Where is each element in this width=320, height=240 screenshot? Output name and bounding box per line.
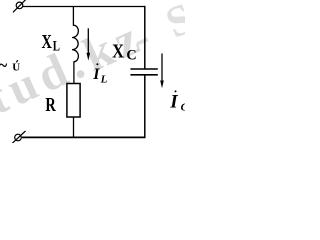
svg-text:I: I [169, 92, 178, 113]
current arrow IL [87, 28, 91, 60]
svg-text:C: C [181, 101, 185, 113]
label IL [92, 63, 107, 85]
label IC [169, 90, 188, 113]
svg-text:I: I [92, 66, 100, 83]
wire right (top corner down to capacitor) [144, 6, 146, 69]
label XL [42, 30, 61, 54]
node junction inductor branch [72, 6, 74, 26]
svg-text:R: R [45, 93, 56, 116]
svg-text:U: U [12, 62, 20, 74]
wire top [23, 6, 146, 8]
svg-text:~: ~ [0, 55, 7, 75]
resistor R [67, 84, 80, 118]
svg-text:C: C [126, 47, 136, 63]
current arrow IC [160, 54, 164, 89]
svg-text:X: X [112, 40, 124, 62]
svg-text:X: X [42, 30, 53, 53]
svg-text:L: L [100, 74, 108, 86]
wire resistor to bottom [73, 117, 75, 138]
capacitor XC plates [130, 69, 157, 75]
label XC [112, 40, 137, 63]
wire inductor to resistor [73, 61, 75, 84]
wire capacitor to bottom [144, 76, 146, 139]
watermark stud.kz [0, 0, 206, 125]
svg-text:L: L [53, 37, 60, 54]
inductor XL coil [72, 25, 78, 62]
terminal top [13, 0, 26, 12]
wire bottom [22, 136, 146, 138]
terminal bottom [12, 131, 26, 144]
source label ~ U [0, 55, 20, 75]
